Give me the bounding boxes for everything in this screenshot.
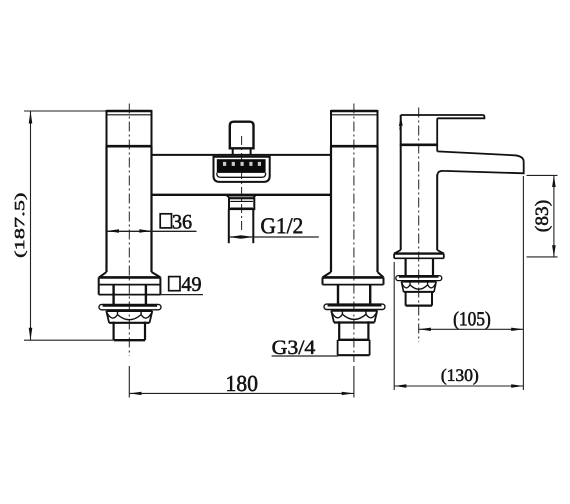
side handle split line [400, 144, 438, 147]
dim (83) extensions [527, 174, 558, 176]
dim G3/4 leader [272, 355, 338, 357]
dim square49 square glyph [169, 277, 180, 291]
dim 105/130 right extension [522, 176, 524, 390]
outlet flange [227, 196, 256, 198]
dim (105) line [419, 328, 524, 330]
side lever handle [401, 115, 485, 118]
left pillar body [99, 146, 161, 277]
side body [394, 115, 444, 254]
dim square49 text [182, 277, 201, 291]
side washer [396, 276, 442, 281]
cradle insert white notches [223, 162, 261, 166]
dim G1/2 arrows [229, 235, 241, 238]
left washer dark top [103, 304, 158, 306]
dim (187.5) arrows [29, 111, 33, 124]
left washer [99, 304, 161, 309]
outlet tube [229, 209, 254, 243]
left pillar centerline [128, 104, 130, 357]
dim (130) text [442, 369, 478, 385]
side washer dark top [399, 276, 439, 278]
dim (83) text [535, 201, 552, 232]
dim square36 line [107, 230, 197, 232]
dim (187.5) line [30, 111, 32, 340]
dim 180 extensions [128, 366, 130, 398]
dim G3/4 text [273, 341, 316, 355]
diverter knob [230, 122, 254, 149]
dim G1/2 text [261, 218, 302, 233]
dim (130) arrows [394, 384, 406, 387]
outlet collar inner line [230, 200, 253, 202]
right threaded tail upper [338, 321, 370, 340]
right pillar handle [330, 110, 379, 146]
right washer [324, 304, 385, 309]
dim (187.5) extension bottom [24, 339, 113, 341]
dim 180 line [129, 392, 354, 394]
dim (130) line [394, 385, 523, 387]
side spout [437, 151, 524, 174]
right hex nut [331, 311, 377, 323]
knob neck [233, 148, 251, 155]
side escutcheon flange [394, 254, 444, 259]
left threaded tail [114, 322, 145, 341]
dim 180 text [227, 376, 257, 391]
dim (187.5) extension top [24, 110, 106, 112]
dim (105) text [454, 312, 490, 330]
side view centerline [418, 108, 420, 343]
side hex nut [401, 282, 436, 292]
dim (83) arrows [552, 175, 556, 187]
right washer dark top [328, 304, 382, 306]
dim (83) line [553, 175, 555, 257]
dim square36 arrows [107, 229, 119, 232]
dim square36 square glyph [160, 214, 171, 228]
side tail [406, 292, 432, 306]
right shank [338, 285, 370, 305]
diverter centerline [241, 136, 243, 231]
side shank [406, 258, 433, 276]
outlet collar [229, 198, 254, 209]
right escutcheon flange [323, 277, 384, 284]
left hex nut [106, 311, 152, 323]
left pillar handle [106, 110, 153, 146]
left escutcheon flange [99, 277, 161, 294]
dim square49 leader [160, 294, 203, 296]
dim G1/2 line [229, 236, 319, 238]
right pillar centerline [353, 104, 355, 363]
dim 130 left extension [393, 262, 395, 390]
dim (187.5) text [15, 194, 28, 258]
left shank [114, 285, 146, 305]
outlet collar inner bottom line [230, 207, 253, 209]
right threaded tail lower [338, 340, 370, 355]
side small arrow [399, 116, 403, 126]
cradle outline [214, 157, 270, 182]
dim square36 text [173, 215, 192, 229]
right pillar body [323, 146, 384, 277]
crossbar [152, 155, 332, 195]
cradle inner contour [217, 173, 266, 177]
dim 180 arrows [129, 392, 141, 395]
cradle dark insert [217, 159, 266, 173]
dim (105) arrows [419, 328, 431, 331]
